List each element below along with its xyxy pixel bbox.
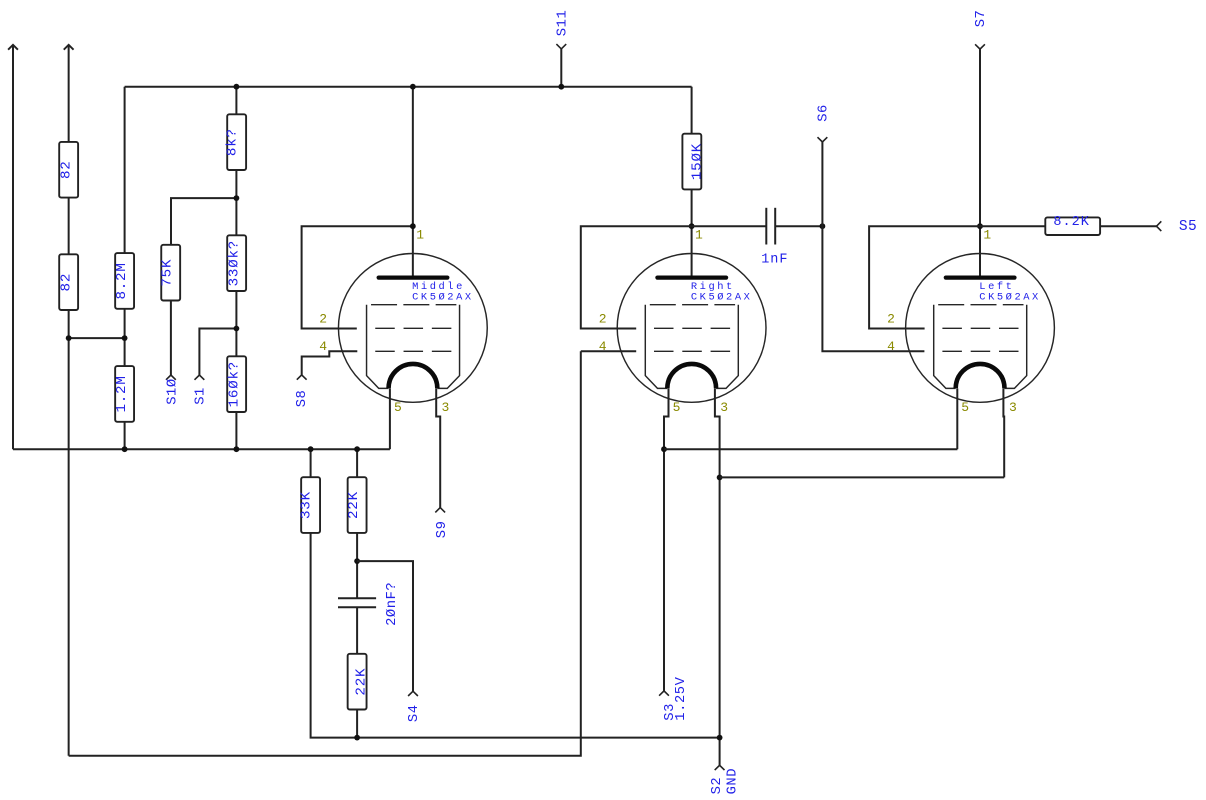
wire S7 drop to left plate [979,49,981,278]
wire 22K bottom to bus [356,710,358,738]
wire 150K to right plate [691,189,693,277]
svg-text:4: 4 [887,339,895,354]
wire S4 route [357,561,413,691]
junction 8.2M-chain y338 [122,335,128,341]
wire left pin3 to cathode bus [1002,388,1005,477]
wire left grid tee [869,226,980,328]
wire middle plate feed [412,87,414,278]
resistor R4 1.2M [115,366,134,422]
wire second rail down to bottom bus [68,310,70,756]
svg-text:5: 5 [961,400,969,415]
wire filament bus left [13,448,390,450]
wire 33K top [310,449,312,477]
svg-text:S6: S6 [817,104,832,122]
wire R6-R7 [235,170,237,235]
svg-text:15ØK: 15ØK [689,143,705,180]
pin S8 marker [297,375,307,380]
wire top bus right corner to 150K [691,87,693,134]
pin S11 marker [556,44,566,49]
wire R3-R4 [124,309,126,366]
svg-text:75K: 75K [160,259,176,287]
svg-text:2: 2 [887,312,895,327]
svg-text:33Øk?: 33Øk? [227,240,243,286]
resistor R2 82 [59,254,78,310]
svg-text:16Øk?: 16Øk? [227,361,243,407]
wire 22K to cap [356,533,358,598]
junction cap-S6 node [820,223,826,229]
wire 75K top tee [171,198,236,245]
svg-text:2ØnF?: 2ØnF? [384,582,400,626]
capacitor C2 1nF [765,208,767,245]
svg-text:3: 3 [442,400,450,415]
svg-text:1: 1 [695,228,703,243]
wire right-tube pin4 stub [581,350,636,352]
resistor R1 82 [59,142,78,198]
wire bottom return bus [69,351,581,756]
junction filament x357 [354,446,360,452]
triode V2 Right CK502AX [617,254,766,403]
wire R8 to filament bus [235,412,237,449]
wire middle pin3 to S9 [436,388,440,507]
svg-text:S8: S8 [295,390,310,408]
resistor R9 33K [301,477,320,533]
svg-text:S2: S2 [710,777,725,795]
wire 22K top [356,449,358,477]
svg-text:S9: S9 [435,521,450,539]
wire middle grid tee [302,226,413,328]
svg-text:22K: 22K [353,668,369,696]
svg-text:1nF: 1nF [761,253,788,268]
junction middle plate node [410,223,416,229]
pin S4 marker [408,691,418,696]
wire 8.2K to S5 [1100,225,1156,227]
pin S6 marker [818,137,828,142]
wire cap to S6 riser [775,225,822,227]
pin S2 marker [715,765,725,770]
wire S11 drop [560,49,562,87]
arrowhead second rail [64,45,74,50]
svg-text:4: 4 [599,339,607,354]
junction right pin3 cathode bus [717,475,723,481]
svg-text:3: 3 [1009,400,1017,415]
resistor R5 75K [161,245,180,301]
pin S1 marker [195,375,205,380]
junction cap node [354,558,360,564]
svg-text:22K: 22K [346,491,362,519]
resistor R12 150K [682,134,701,190]
resistor R3 8.2M [115,253,134,309]
wire top HT bus [125,86,692,88]
pin S7 marker [975,44,985,49]
pin S5 marker [1157,221,1162,231]
wire S8 route to middle pin4 [302,351,358,375]
junction filament x310 [308,446,314,452]
wire S1 to 330k-160k node [199,329,236,376]
wire left rail [12,45,14,449]
wire left pin5 to filament bus [956,388,958,449]
wire R1-R2 [68,198,70,255]
triode V3 Left CK502AX [906,254,1055,403]
triode V1 Middle CK502AX [338,254,487,403]
wire R7-R8 [235,291,237,356]
svg-text:2: 2 [319,312,327,327]
pin S10 marker [166,375,176,380]
svg-text:S7: S7 [974,10,989,28]
svg-text:1.2M: 1.2M [114,375,130,412]
resistor R8 160k? [227,356,246,412]
junction right pin5 filament [661,446,667,452]
junction right pin3 bottom bus [717,735,723,741]
wire right grid tee [581,226,692,328]
wire filament bus right [664,448,957,450]
wire S6 riser to left tube pin4 [822,142,924,351]
svg-text:S1Ø: S1Ø [165,378,181,405]
wire right pin5 to S3 [664,388,669,691]
junction 82-chain y338 [66,335,72,341]
junction top bus x561 [558,84,564,90]
arrowhead left rail [8,45,18,50]
svg-text:8.2M: 8.2M [114,262,130,299]
svg-text:33K: 33K [299,491,315,519]
wire cap to 22K bottom [356,607,358,654]
svg-text:S4: S4 [407,704,422,722]
svg-text:S1: S1 [194,387,209,405]
wire R4 to filament bus [124,422,126,449]
resistor R11 22K [348,654,367,710]
wire left plate to 8.2K [980,225,1045,227]
svg-text:4: 4 [319,339,327,354]
wire top bus to R6 [235,87,237,115]
resistor R6 8k? [227,114,246,170]
wire 75K to S10 [170,301,172,376]
junction filament x236 [234,446,240,452]
svg-text:GND: GND [725,768,740,795]
svg-text:CK5Ø2AX: CK5Ø2AX [979,292,1041,304]
pin S3 marker [659,691,669,696]
svg-text:S11: S11 [556,10,571,37]
wire right pin3 to S2 [715,388,720,765]
junction filament x124 [122,446,128,452]
svg-text:CK5Ø2AX: CK5Ø2AX [691,292,753,304]
wire right plate to cap [692,225,767,227]
svg-text:1: 1 [983,228,991,243]
junction bottom bus x357 [354,735,360,741]
junction top bus x236 [234,84,240,90]
capacitor C1 20nF? [338,597,376,599]
svg-text:5: 5 [394,400,402,415]
wire cathode bus right [720,476,1005,478]
wire 33K down to bottom bus [311,533,720,738]
svg-text:5: 5 [673,400,681,415]
junction top bus x412 [410,84,416,90]
svg-text:8k?: 8k? [225,128,241,156]
svg-text:82: 82 [58,273,74,292]
svg-text:1.25V: 1.25V [674,676,689,720]
svg-text:8.2K: 8.2K [1053,215,1089,230]
junction right plate node [689,223,695,229]
junction 330k-160k node [234,326,240,332]
svg-text:82: 82 [58,160,74,179]
junction left plate node [977,223,983,229]
wire middle pin5 to filament bus [389,388,391,449]
svg-text:3: 3 [720,400,728,415]
junction 8k-75K node [234,195,240,201]
wire tie 82-chain to 8.2M chain [69,337,125,339]
resistor R13 8.2K [1045,217,1100,235]
resistor R10 22K [348,477,367,533]
resistor R7 330k? [227,235,246,291]
svg-text:1: 1 [416,228,424,243]
svg-text:S5: S5 [1179,219,1197,235]
wire top bus left corner down to R3 [124,87,126,253]
svg-text:CK5Ø2AX: CK5Ø2AX [412,292,474,304]
wire second rail top [68,45,70,142]
pin S9 marker [435,508,445,513]
svg-text:2: 2 [599,312,607,327]
